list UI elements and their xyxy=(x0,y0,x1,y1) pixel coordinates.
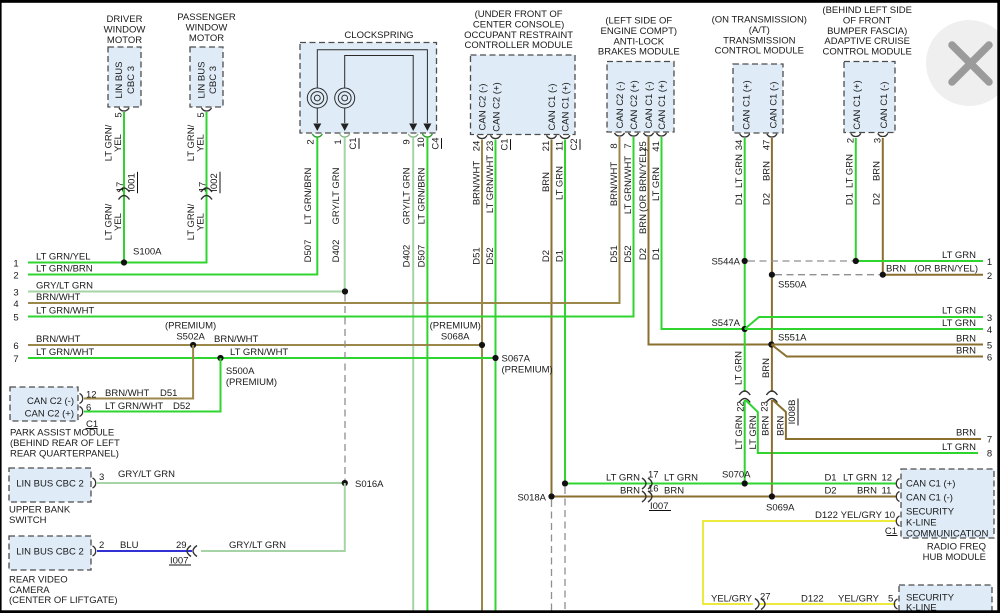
pin cup driver motor pin 5 xyxy=(119,108,129,111)
svg-text:(PREMIUM): (PREMIUM) xyxy=(226,377,277,388)
svg-text:LT GRN: LT GRN xyxy=(843,473,877,484)
svg-text:10: 10 xyxy=(416,137,427,148)
module: ANTI-LOCK BRAKES box xyxy=(607,62,674,133)
wire row2 right BRN xyxy=(883,274,983,276)
svg-text:BUMPER FASCIA): BUMPER FASCIA) xyxy=(827,26,907,37)
wire row3 right LT GRN from S547A xyxy=(745,317,983,329)
svg-text:2: 2 xyxy=(13,271,18,282)
svg-text:S547A: S547A xyxy=(711,318,740,329)
svg-text:BRN: BRN xyxy=(956,428,976,439)
svg-text:ANTI-LOCK: ANTI-LOCK xyxy=(613,36,664,47)
wire TCM pin47 BRN D2 xyxy=(771,138,773,392)
svg-text:C4: C4 xyxy=(431,137,442,149)
svg-text:C1: C1 xyxy=(348,137,359,149)
svg-text:D51: D51 xyxy=(160,388,177,399)
camera pin cup xyxy=(93,546,96,556)
svg-text:LT GRN: LT GRN xyxy=(942,306,976,317)
svg-text:41: 41 xyxy=(651,141,662,152)
clockspring coil 2 xyxy=(335,88,355,108)
svg-text:BRN: BRN xyxy=(761,358,772,378)
wire ACC pin3 BRN D2 xyxy=(882,138,884,275)
svg-text:3: 3 xyxy=(13,288,18,299)
svg-text:GRY/LT GRN: GRY/LT GRN xyxy=(331,167,342,224)
wire LT GRN pin22 to S070A xyxy=(744,400,746,484)
svg-text:1: 1 xyxy=(987,257,992,268)
svg-text:S502A: S502A xyxy=(176,332,205,343)
module: TRANSMISSION CONTROL box xyxy=(733,64,783,133)
svg-text:YEL/GRY: YEL/GRY xyxy=(711,594,753,605)
svg-text:BRN: BRN xyxy=(541,172,552,192)
svg-text:TRANSMISSION: TRANSMISSION xyxy=(723,35,795,46)
svg-text:5: 5 xyxy=(888,594,893,605)
svg-text:10: 10 xyxy=(885,510,896,521)
dashed wire S544A to ACC xyxy=(748,260,856,262)
svg-text:PASSENGER: PASSENGER xyxy=(177,12,236,23)
svg-text:C1: C1 xyxy=(500,138,511,150)
svg-text:CONTROL MODULE: CONTROL MODULE xyxy=(715,46,804,57)
svg-text:ADAPTIVE CRUISE: ADAPTIVE CRUISE xyxy=(824,36,910,47)
dashed wire D402 down to S016A xyxy=(344,295,346,481)
svg-text:(BEHIND LEFT SIDE: (BEHIND LEFT SIDE xyxy=(822,5,912,16)
svg-text:S544A: S544A xyxy=(711,257,740,268)
svg-text:7: 7 xyxy=(13,354,18,365)
splice S018A xyxy=(548,493,554,499)
svg-text:D122: D122 xyxy=(801,594,824,605)
svg-text:CAN C1 (+): CAN C1 (+) xyxy=(742,80,753,129)
svg-text:4: 4 xyxy=(13,299,18,310)
svg-text:16: 16 xyxy=(648,484,659,495)
wire row5 right BRN xyxy=(771,344,983,346)
svg-text:YEL: YEL xyxy=(113,134,124,152)
svg-text:(OR BRN/YEL): (OR BRN/YEL) xyxy=(914,264,978,275)
wire row6 right BRN from S551A xyxy=(771,345,983,357)
svg-text:CAN C2 (+): CAN C2 (+) xyxy=(492,82,503,131)
svg-text:LT GRN/WHT: LT GRN/WHT xyxy=(485,155,496,213)
svg-text:OCCUPANT RESTRAINT: OCCUPANT RESTRAINT xyxy=(464,30,573,41)
wire clockspring pin9 GRY/LT GRN D402 xyxy=(412,138,414,613)
svg-text:LT GRN: LT GRN xyxy=(734,154,745,188)
splice S069A xyxy=(769,493,775,499)
svg-text:YEL: YEL xyxy=(196,213,207,231)
svg-text:MOTOR: MOTOR xyxy=(189,33,224,44)
splice S067A xyxy=(492,355,498,361)
wire camera BLU xyxy=(97,550,192,552)
svg-text:D1: D1 xyxy=(824,473,836,484)
wire row17 LT GRN S070A xyxy=(565,483,897,485)
svg-text:(A/T): (A/T) xyxy=(749,25,770,36)
svg-text:(BEHIND REAR OF LEFT: (BEHIND REAR OF LEFT xyxy=(10,438,120,449)
svg-text:(LEFT SIDE OF: (LEFT SIDE OF xyxy=(605,16,672,27)
svg-text:LIN BUS: LIN BUS xyxy=(114,62,125,99)
wire GRY/LT GRN camera to S016A xyxy=(201,483,345,551)
dashed wire below ORC D1 junction xyxy=(564,487,566,613)
wire ORC pin24 BRN/WHT D51 xyxy=(481,140,483,613)
svg-text:SWITCH: SWITCH xyxy=(9,515,47,526)
svg-text:BRN: BRN xyxy=(956,334,976,345)
svg-text:HUB MODULE: HUB MODULE xyxy=(923,552,986,563)
svg-text:2: 2 xyxy=(99,540,104,551)
svg-text:2: 2 xyxy=(845,138,856,143)
svg-text:SECURITY: SECURITY xyxy=(906,507,955,518)
splice S070A xyxy=(742,480,748,486)
in-line connector pin22 xyxy=(739,391,750,395)
svg-text:47: 47 xyxy=(761,140,772,151)
svg-text:LT GRN: LT GRN xyxy=(555,166,566,200)
svg-text:BRN/WHT: BRN/WHT xyxy=(214,334,259,345)
wire row4 right LT GRN xyxy=(745,328,983,330)
in-line connector I007 (camera) xyxy=(193,546,197,557)
clockspring internal tails to pins xyxy=(316,108,318,123)
svg-text:(ON TRANSMISSION): (ON TRANSMISSION) xyxy=(712,15,807,26)
svg-text:BRN: BRN xyxy=(620,486,640,497)
in-line connector I007 pin17 xyxy=(642,478,646,489)
junction ORC D1 row17 xyxy=(562,480,568,486)
svg-text:D2: D2 xyxy=(638,248,649,260)
svg-text:D1: D1 xyxy=(555,250,566,262)
svg-text:CAN C1 (+): CAN C1 (+) xyxy=(561,82,572,131)
svg-text:BRN: BRN xyxy=(956,346,976,357)
wire row5 LT GRN/WHT xyxy=(28,316,633,318)
svg-text:(OR BRN/YEL): (OR BRN/YEL) xyxy=(638,148,649,212)
svg-text:7: 7 xyxy=(623,143,634,148)
svg-text:ENGINE COMPT): ENGINE COMPT) xyxy=(601,26,678,37)
svg-text:S100A: S100A xyxy=(133,247,162,258)
svg-text:CBC 3: CBC 3 xyxy=(126,66,137,94)
svg-text:D1: D1 xyxy=(734,193,745,205)
wire clockspring pin2 LT GRN/BRN D507 xyxy=(28,138,317,275)
svg-text:S016A: S016A xyxy=(355,479,384,490)
svg-text:8: 8 xyxy=(609,143,620,148)
svg-text:CAN C2 (-): CAN C2 (-) xyxy=(478,84,489,131)
module: PARK ASSIST box xyxy=(10,387,78,421)
svg-text:OF FRONT: OF FRONT xyxy=(843,15,892,26)
svg-text:LT GRN: LT GRN xyxy=(734,415,745,449)
svg-text:S018A: S018A xyxy=(517,493,546,504)
svg-text:2: 2 xyxy=(987,271,992,282)
svg-text:CLOCKSPRING: CLOCKSPRING xyxy=(344,30,413,41)
junction ACC D2 row2 xyxy=(880,272,886,278)
svg-text:D52: D52 xyxy=(485,247,496,264)
svg-text:17: 17 xyxy=(198,182,209,193)
svg-text:D402: D402 xyxy=(331,240,342,263)
svg-text:GRY/LT GRN: GRY/LT GRN xyxy=(118,469,175,480)
svg-text:BRN/WHT: BRN/WHT xyxy=(472,161,483,206)
wire YEL/GRY RF hub pin10 xyxy=(703,521,897,604)
svg-text:11: 11 xyxy=(555,141,566,151)
svg-text:34: 34 xyxy=(734,140,745,151)
svg-text:3: 3 xyxy=(99,472,104,483)
svg-text:1: 1 xyxy=(333,139,344,144)
module: RADIO FREQ HUB box xyxy=(901,469,994,538)
splice S544A xyxy=(742,258,748,264)
svg-text:BRN: BRN xyxy=(857,486,877,497)
svg-text:24: 24 xyxy=(472,141,483,152)
svg-text:LT GRN: LT GRN xyxy=(664,473,698,484)
svg-text:11: 11 xyxy=(882,486,892,497)
wire BRN pin23 branch to row7 xyxy=(773,400,981,439)
clockspring internal wire inner loop xyxy=(345,56,414,124)
wire park assist pin12 BRN/WHT D51 xyxy=(84,345,193,399)
frame top xyxy=(0,0,1000,3)
svg-text:LT GRN: LT GRN xyxy=(942,318,976,329)
svg-text:BRN: BRN xyxy=(871,161,882,181)
svg-text:5: 5 xyxy=(987,341,992,352)
splice S547A xyxy=(742,326,748,332)
svg-text:27: 27 xyxy=(760,592,771,603)
svg-text:BRAKES MODULE: BRAKES MODULE xyxy=(598,47,680,58)
svg-text:CAN C1 (-): CAN C1 (-) xyxy=(906,493,953,504)
svg-text:2: 2 xyxy=(306,139,317,144)
wire LT GRN pin22 branch to row8 xyxy=(746,400,979,453)
svg-text:LT GRN/WHT: LT GRN/WHT xyxy=(623,156,634,214)
wire ABS pin25 BRN D2 to S551A xyxy=(649,137,772,345)
wire row16 BRN S069A xyxy=(552,496,898,498)
wire ABS pin7 LT GRN/WHT D52 to row5 xyxy=(28,137,634,317)
svg-text:I001: I001 xyxy=(127,173,138,192)
pin cup passenger motor pin 5 xyxy=(202,108,212,111)
svg-text:D1: D1 xyxy=(651,248,662,260)
svg-text:CAN C1 (+): CAN C1 (+) xyxy=(852,80,863,129)
wire row1 right LT GRN xyxy=(856,260,983,262)
close button circle xyxy=(926,20,1000,106)
ACC pin cups xyxy=(851,133,861,136)
svg-text:D2: D2 xyxy=(541,250,552,262)
ABS pin cups xyxy=(615,133,625,136)
svg-text:CONTROLLER MODULE: CONTROLLER MODULE xyxy=(464,40,572,51)
close button X xyxy=(952,45,989,82)
module: PASSENGER WINDOW MOTOR box xyxy=(190,47,223,107)
svg-text:LT GRN/WHT: LT GRN/WHT xyxy=(105,401,163,412)
in-line connector I001 xyxy=(119,188,130,192)
svg-text:S500A: S500A xyxy=(226,366,255,377)
wire TCM pin34 LT GRN D1 xyxy=(744,138,746,392)
dashed wire below S018A xyxy=(551,500,553,613)
svg-text:LT GRN: LT GRN xyxy=(844,154,855,188)
ORC pin cups xyxy=(477,135,487,138)
svg-text:RADIO FREQ: RADIO FREQ xyxy=(927,542,986,553)
clockspring arrows xyxy=(313,124,321,132)
svg-text:CAN C2 (-): CAN C2 (-) xyxy=(615,82,626,129)
svg-text:(UNDER FRONT OF: (UNDER FRONT OF xyxy=(475,9,563,20)
svg-text:CAN C1 (-): CAN C1 (-) xyxy=(644,82,655,129)
svg-text:S068A: S068A xyxy=(441,332,470,343)
svg-text:3: 3 xyxy=(987,313,992,324)
park assist pin cups xyxy=(80,394,83,404)
svg-text:5: 5 xyxy=(113,112,124,117)
svg-text:C2: C2 xyxy=(569,138,580,150)
wire passenger motor LT GRN/YEL xyxy=(124,112,207,263)
svg-text:LT GRN/WHT: LT GRN/WHT xyxy=(36,306,94,317)
svg-text:S067A: S067A xyxy=(502,354,531,365)
svg-text:BRN/WHT: BRN/WHT xyxy=(36,334,81,345)
svg-text:(PREMIUM): (PREMIUM) xyxy=(430,321,481,332)
svg-text:6: 6 xyxy=(987,353,992,364)
svg-text:D122: D122 xyxy=(815,510,838,521)
svg-text:LIN BUS CBC 2: LIN BUS CBC 2 xyxy=(16,547,84,558)
splice S502A xyxy=(190,342,196,348)
svg-text:S551A: S551A xyxy=(778,333,807,344)
clockspring pin cups xyxy=(312,134,322,137)
svg-text:LT GRN: LT GRN xyxy=(942,442,976,453)
svg-text:YEL: YEL xyxy=(113,213,124,231)
svg-text:BRN: BRN xyxy=(775,416,786,436)
junction D402 row3 xyxy=(342,288,348,294)
splice S100A xyxy=(121,259,127,265)
upper bank pin cup xyxy=(93,478,96,488)
svg-text:6: 6 xyxy=(13,341,18,352)
module: SECURITY K-LINE box (bottom) xyxy=(899,585,992,613)
svg-text:S550A: S550A xyxy=(778,280,807,291)
svg-text:LT GRN: LT GRN xyxy=(651,167,662,201)
in-line connector pin23 I008B xyxy=(766,391,777,395)
svg-text:BRN/WHT: BRN/WHT xyxy=(609,162,620,207)
svg-text:PARK ASSIST MODULE: PARK ASSIST MODULE xyxy=(10,428,114,439)
svg-text:MOTOR: MOTOR xyxy=(107,35,142,46)
svg-text:LT GRN/BRN: LT GRN/BRN xyxy=(36,264,93,275)
svg-text:UPPER BANK: UPPER BANK xyxy=(9,505,71,516)
svg-text:D2: D2 xyxy=(761,193,772,205)
svg-text:REAR QUARTERPANEL): REAR QUARTERPANEL) xyxy=(10,449,119,460)
svg-text:S069A: S069A xyxy=(766,503,795,514)
wire row2 LT GRN/BRN xyxy=(28,274,317,276)
svg-text:21: 21 xyxy=(541,141,552,152)
splice S068A xyxy=(479,342,485,348)
junction ACC D1 row1 xyxy=(853,258,859,264)
svg-text:(PREMIUM): (PREMIUM) xyxy=(165,321,216,332)
svg-text:D507: D507 xyxy=(303,240,314,263)
svg-text:D52: D52 xyxy=(173,401,190,412)
svg-text:BRN/WHT: BRN/WHT xyxy=(105,388,150,399)
wire row4 BRN/WHT xyxy=(28,302,619,304)
svg-text:LT GRN: LT GRN xyxy=(734,351,745,385)
svg-text:GRY/LT GRN: GRY/LT GRN xyxy=(36,281,93,292)
frame bottom xyxy=(0,610,1000,613)
svg-text:12: 12 xyxy=(882,473,893,484)
svg-text:YEL/GRY: YEL/GRY xyxy=(838,594,880,605)
svg-text:LT GRN/BRN: LT GRN/BRN xyxy=(303,168,314,225)
svg-text:LT GRN/YEL: LT GRN/YEL xyxy=(36,252,91,263)
svg-text:D52: D52 xyxy=(623,245,634,262)
wire ABS pin8 BRN/WHT D51 to row4 xyxy=(28,137,620,303)
svg-text:9: 9 xyxy=(402,139,413,144)
svg-text:CONTROL MODULE: CONTROL MODULE xyxy=(823,47,912,58)
svg-text:D2: D2 xyxy=(871,193,882,205)
wire row6 BRN/WHT xyxy=(28,344,482,346)
svg-text:BRN/WHT: BRN/WHT xyxy=(36,292,81,303)
wire driver motor LT GRN/YEL xyxy=(123,112,125,263)
module: UPPER BANK SWITCH box xyxy=(9,468,91,502)
svg-text:3: 3 xyxy=(872,138,883,143)
svg-text:CAN C2 (-): CAN C2 (-) xyxy=(27,396,74,407)
svg-text:CAN C1 (-): CAN C1 (-) xyxy=(769,82,780,129)
svg-text:D1: D1 xyxy=(844,193,855,205)
svg-text:BRN: BRN xyxy=(760,416,771,436)
svg-text:1: 1 xyxy=(13,259,18,270)
clockspring coil 1 xyxy=(307,88,327,108)
svg-text:BRN: BRN xyxy=(664,486,684,497)
wire clockspring pin1 GRY/LT GRN D402 xyxy=(344,138,346,292)
svg-text:CAN C1 (-): CAN C1 (-) xyxy=(547,84,558,131)
svg-text:(PREMIUM): (PREMIUM) xyxy=(502,364,553,375)
wire ORC pin23 LT GRN/WHT D52 xyxy=(495,140,497,613)
svg-text:LT GRN/WHT: LT GRN/WHT xyxy=(36,347,94,358)
svg-text:D402: D402 xyxy=(402,245,413,268)
splice S551A xyxy=(768,341,774,347)
wire ORC pin11 LT GRN D1 xyxy=(564,140,566,484)
svg-text:CAN C1 (+): CAN C1 (+) xyxy=(906,479,955,490)
splice S500A xyxy=(217,355,223,361)
svg-text:CAN C2 (+): CAN C2 (+) xyxy=(629,80,640,129)
svg-text:COMMUNICATION: COMMUNICATION xyxy=(906,529,988,540)
dashed wire S550A to ACC xyxy=(775,274,883,276)
svg-text:D51: D51 xyxy=(609,245,620,262)
TCM pin cups xyxy=(740,134,750,137)
clockspring internal wire outer loop xyxy=(317,50,427,123)
svg-text:YEL/GRY: YEL/GRY xyxy=(841,510,883,521)
splice S016A xyxy=(342,480,348,486)
in-line connector bottom I308B xyxy=(755,599,759,610)
RF hub pin cups xyxy=(896,479,899,489)
svg-text:D51: D51 xyxy=(472,247,483,264)
frame left xyxy=(0,0,2,613)
frame right xyxy=(997,0,1000,613)
svg-text:BRN: BRN xyxy=(638,214,649,234)
svg-text:LT GRN/BRN: LT GRN/BRN xyxy=(416,168,427,225)
module: CLOCKSPRING box xyxy=(300,43,437,134)
security module pin cup xyxy=(894,599,897,609)
svg-text:CBC 3: CBC 3 xyxy=(208,66,219,94)
svg-text:YEL: YEL xyxy=(196,134,207,152)
in-line connector I007 pin16 xyxy=(642,491,646,502)
wire row1 LT GRN/YEL xyxy=(28,262,207,264)
wire YEL/GRY bottom row to security module xyxy=(759,603,896,605)
svg-text:CAN C2 (+): CAN C2 (+) xyxy=(25,409,74,420)
svg-text:29: 29 xyxy=(176,540,187,551)
svg-text:(CENTER OF LIFTGATE): (CENTER OF LIFTGATE) xyxy=(9,595,118,606)
svg-text:CAN C1 (+): CAN C1 (+) xyxy=(657,80,668,129)
svg-text:LT GRN: LT GRN xyxy=(606,473,640,484)
svg-text:LIN BUS CBC 2: LIN BUS CBC 2 xyxy=(16,479,84,490)
svg-text:BRN: BRN xyxy=(886,264,906,275)
wire row7 LT GRN/WHT xyxy=(28,357,496,359)
svg-text:LT GRN/WHT: LT GRN/WHT xyxy=(230,347,288,358)
svg-text:CENTER CONSOLE): CENTER CONSOLE) xyxy=(473,19,564,30)
wire clockspring pin10 LT GRN/BRN D507 xyxy=(426,138,428,613)
svg-text:17: 17 xyxy=(648,470,659,481)
module: OCCUPANT RESTRAINT CONTROLLER box xyxy=(471,55,576,135)
svg-text:WINDOW: WINDOW xyxy=(186,23,228,34)
module: DRIVER WINDOW MOTOR box xyxy=(108,47,141,107)
module: ADAPTIVE CRUISE CONTROL box xyxy=(844,62,895,133)
svg-text:S070A: S070A xyxy=(722,470,751,481)
svg-text:I008B: I008B xyxy=(787,400,798,425)
module: REAR VIDEO CAMERA box xyxy=(9,536,91,570)
wire BRN pin23 to S069A xyxy=(771,400,773,497)
svg-text:23: 23 xyxy=(760,401,771,412)
svg-text:K-LINE: K-LINE xyxy=(906,518,937,529)
svg-text:4: 4 xyxy=(987,325,992,336)
svg-text:17: 17 xyxy=(115,182,126,193)
svg-text:5: 5 xyxy=(13,313,18,324)
svg-text:D2: D2 xyxy=(824,486,836,497)
wire ABS pin41 LT GRN D1 to S547A xyxy=(662,137,745,329)
wire row3 GRY/LT GRN xyxy=(28,291,345,293)
svg-text:8: 8 xyxy=(987,449,992,460)
wire park assist pin6 LT GRN/WHT D52 xyxy=(84,358,221,412)
svg-text:23: 23 xyxy=(485,141,496,152)
wire ACC pin2 LT GRN D1 xyxy=(855,138,857,261)
svg-text:BRN: BRN xyxy=(761,161,772,181)
